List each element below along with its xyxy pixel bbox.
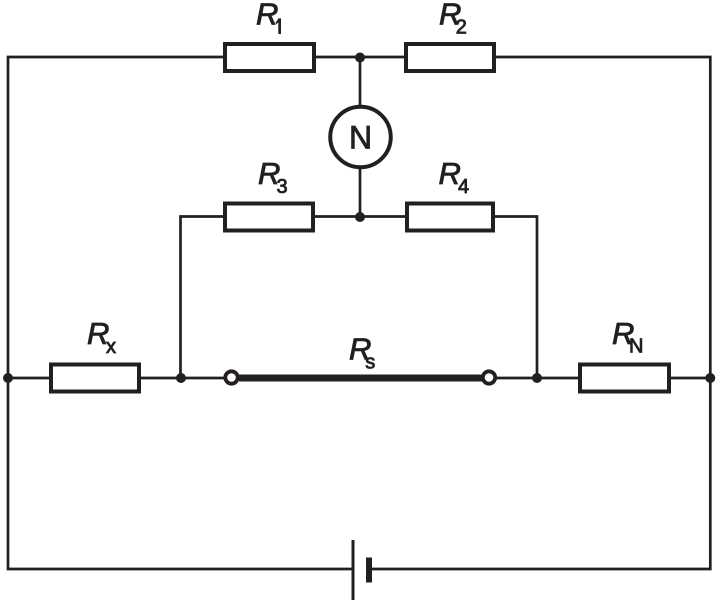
svg-text:3: 3: [277, 176, 288, 198]
svg-text:x: x: [106, 336, 116, 358]
svg-text:N: N: [349, 119, 372, 155]
svg-text:s: s: [365, 352, 375, 374]
svg-text:2: 2: [456, 17, 467, 39]
svg-text:R: R: [256, 0, 278, 32]
svg-text:N: N: [629, 335, 643, 357]
svg-text:4: 4: [458, 176, 469, 198]
